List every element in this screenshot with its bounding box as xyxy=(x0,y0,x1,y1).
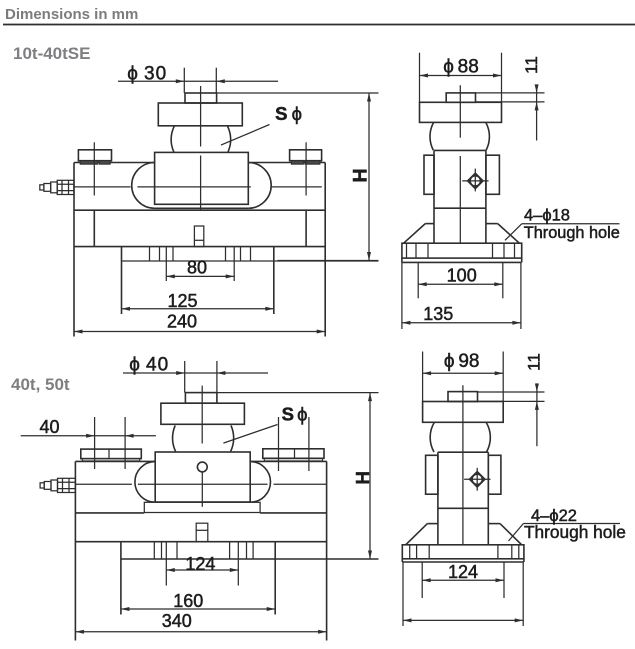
view C housing top edge right segment xyxy=(251,460,327,462)
svg-text:125: 125 xyxy=(167,291,197,311)
view C stadium right cap arc xyxy=(250,462,270,503)
view A top plate xyxy=(158,103,242,126)
view A housing top edge left segment xyxy=(74,162,154,164)
view D foot right slope xyxy=(500,524,522,545)
view B dim phi88 xyxy=(420,75,502,77)
view D body left side xyxy=(437,452,439,545)
view A left bolt centerline xyxy=(93,142,95,195)
view D left ear xyxy=(426,455,438,494)
view B dim 135 extension lines xyxy=(401,262,403,329)
view C dim phi40 extension ticks xyxy=(184,361,186,393)
view D hole cross horizontal xyxy=(464,478,490,480)
view B body joint line xyxy=(434,207,486,209)
view B hole cross horizontal xyxy=(462,180,488,182)
view A centerline vertical lower in block xyxy=(200,156,202,211)
view A centerline vertical upper xyxy=(200,86,202,147)
view D foot left shoulder xyxy=(427,523,438,525)
view D body top line xyxy=(438,451,488,453)
view A stud on top xyxy=(185,93,217,103)
view C housing top edge left segment xyxy=(75,460,154,462)
view C centerline vertical lower xyxy=(201,472,203,507)
view D body joint line xyxy=(438,507,488,509)
view A central block (white over stadium) xyxy=(155,152,249,204)
svg-text:H: H xyxy=(352,471,373,484)
view D body right side xyxy=(487,452,489,545)
view D centerline vertical xyxy=(462,385,464,544)
svg-text:ϕ 40: ϕ 40 xyxy=(129,354,169,375)
bottom H dimension line xyxy=(369,393,371,559)
svg-text:340: 340 xyxy=(162,611,192,631)
view B foot lip xyxy=(401,258,403,262)
view B hole circle xyxy=(470,176,480,186)
view D hole circle xyxy=(472,474,482,484)
top H extension line bottom xyxy=(278,260,379,262)
view C dim phi40 line with outside arrows xyxy=(123,372,268,374)
view D hole cross vertical xyxy=(476,468,478,491)
view A stadium load cell right cap arc xyxy=(248,163,271,209)
view D foot right shoulder xyxy=(488,523,500,525)
view A stadium bottom line xyxy=(155,207,249,209)
view A base strip bottom + H extension line xyxy=(122,260,379,262)
view C base strip ticks xyxy=(153,542,155,559)
view B dim 11 lower extension line xyxy=(476,101,545,103)
view A housing shelf line xyxy=(74,209,325,211)
view D dim 11 lower extension line xyxy=(478,400,545,402)
view C stadium left cap arc xyxy=(135,462,155,503)
view D leader line 4-phi22 xyxy=(509,524,524,542)
svg-text:Through hole: Through hole xyxy=(524,522,626,542)
view D dim 124 extension lines xyxy=(421,562,423,598)
svg-text:H: H xyxy=(349,168,371,182)
svg-text:4–ϕ18: 4–ϕ18 xyxy=(524,207,570,225)
view D foot band ticks xyxy=(409,545,411,559)
view A cable gland mid collar xyxy=(51,182,58,193)
view A cable gland small collar xyxy=(44,184,51,192)
svg-text:240: 240 xyxy=(167,312,197,332)
view D foot band xyxy=(402,545,524,559)
view B leader line 4-phi18 xyxy=(505,224,522,241)
view B leader horizontal line xyxy=(522,223,620,225)
view A left cap pads xyxy=(80,161,98,165)
svg-text:Through hole: Through hole xyxy=(524,224,620,242)
svg-text:40: 40 xyxy=(39,417,59,437)
view A housing left edge + 240 extension xyxy=(73,163,75,337)
view C S-phi leader line xyxy=(223,425,277,444)
view C dim 160 xyxy=(121,608,275,610)
view B stud xyxy=(446,93,475,102)
view B centerline vertical xyxy=(459,85,461,138)
view C left bolt centerlines xyxy=(94,417,96,469)
view C right end cap xyxy=(263,449,324,459)
view C dim 40 line with outside arrows xyxy=(21,435,156,437)
svg-text:10t-40tSE: 10t-40tSE xyxy=(13,44,90,63)
view B body left side xyxy=(433,150,435,243)
view C H extension line from stud top xyxy=(217,392,379,394)
view D top plate xyxy=(423,402,504,423)
view B foot left slope xyxy=(404,224,426,244)
view D dim 11 upper extension line xyxy=(478,391,545,393)
view A base strip right edge + 125 extension xyxy=(273,247,275,314)
view A right rib xyxy=(305,210,307,246)
view D leader horizontal line xyxy=(523,523,620,525)
view A bottom plug xyxy=(194,226,203,247)
view D dim 11 line and arrows xyxy=(536,383,538,446)
svg-text:ϕ 98: ϕ 98 xyxy=(444,351,480,372)
view C right cap pads xyxy=(264,459,322,461)
svg-text:11: 11 xyxy=(525,353,544,371)
view A dim 240 xyxy=(74,331,325,333)
view B dim 11 line and arrows xyxy=(536,85,538,141)
view A right bolt centerline xyxy=(305,142,307,195)
view B foot right shoulder xyxy=(486,223,498,225)
view A right cap pads xyxy=(291,161,303,165)
view C thin plate under block xyxy=(144,502,260,512)
view C right bolt centerlines xyxy=(278,417,280,471)
view B body top line xyxy=(434,149,486,151)
view B foot band xyxy=(402,243,522,258)
view C base strip right edge + 160 extension xyxy=(274,542,276,615)
view A S-phi leader line xyxy=(221,125,270,146)
view D right ear xyxy=(488,455,501,494)
header rule xyxy=(3,24,635,26)
view A left rib xyxy=(93,210,95,246)
view A cable gland tip xyxy=(40,185,44,190)
view A stadium load cell left cap arc xyxy=(132,163,155,209)
svg-text:S: S xyxy=(275,103,287,124)
view C stud xyxy=(185,393,217,404)
view B foot right slope xyxy=(498,224,520,244)
view C cable gland knurled nut xyxy=(58,478,76,492)
view D bottom dim extension lines xyxy=(402,562,404,626)
view B left ear xyxy=(424,155,434,194)
view A housing top edge right segment xyxy=(249,162,325,164)
svg-text:Dimensions in mm: Dimensions in mm xyxy=(5,6,138,23)
view D ball arcs xyxy=(430,422,434,452)
view C shelf line left xyxy=(75,512,144,514)
view C bottom plug xyxy=(196,523,208,542)
view D dim phi98 extension lines xyxy=(422,352,424,402)
view A dim 80 extension lines xyxy=(165,247,167,281)
view C base strip bottom + H extension line xyxy=(121,558,379,560)
view C block hole circle xyxy=(197,462,207,472)
view A dim phi30 line with outside arrows xyxy=(118,80,278,82)
view C ball arcs xyxy=(173,426,176,452)
view C top plate xyxy=(161,403,245,424)
view C centerline vertical upper xyxy=(201,386,203,444)
view D bottom dim line xyxy=(403,619,523,621)
view B dim 135 xyxy=(402,322,521,324)
view C dim 124 extension lines xyxy=(165,542,167,586)
view C housing left edge + 340 extension xyxy=(74,461,76,640)
view A dim 125 xyxy=(122,308,274,310)
view A housing right edge + 240 extension xyxy=(324,163,326,337)
view D dim 124 xyxy=(422,579,504,581)
view B body right side xyxy=(485,150,487,243)
view D foot left slope xyxy=(406,524,428,545)
view B dim phi88 extension lines xyxy=(419,53,421,103)
view A left end cap xyxy=(78,150,111,161)
view C horizontal centerline segments xyxy=(75,483,131,485)
view C left cap pads xyxy=(82,459,139,461)
view D foot lip xyxy=(401,559,403,562)
svg-text:S: S xyxy=(282,403,294,424)
view B dim 100 xyxy=(418,283,503,285)
view A dim 80 xyxy=(166,275,234,277)
view A base strip left edge + 125 extension xyxy=(121,247,123,314)
view C shelf line right xyxy=(260,512,327,514)
view C dim 340 xyxy=(75,631,326,633)
view B dim 100 extension lines xyxy=(417,262,419,298)
view A H extension line from stud top xyxy=(217,92,379,94)
svg-text:100: 100 xyxy=(447,266,477,286)
view C central block (white over stadium) xyxy=(155,452,250,502)
svg-text:80: 80 xyxy=(187,258,207,278)
view D hole diamond xyxy=(470,472,485,487)
svg-text:160: 160 xyxy=(173,591,203,611)
svg-text:ϕ 30: ϕ 30 xyxy=(127,63,167,84)
view C cable gland mid collar xyxy=(51,480,58,491)
svg-text:ϕ 88: ϕ 88 xyxy=(443,57,479,78)
view D dim phi98 xyxy=(423,372,504,374)
view B right ear xyxy=(486,155,500,194)
view B ball arcs xyxy=(430,122,434,150)
view B top plate xyxy=(420,102,502,122)
view B foot band ticks xyxy=(406,243,408,258)
view A housing bottom line xyxy=(74,246,325,248)
view A right end cap xyxy=(290,150,322,161)
svg-text:11: 11 xyxy=(522,56,541,74)
view C cable gland tip xyxy=(40,483,44,488)
view C cable gland small collar xyxy=(44,482,51,490)
svg-text:40t, 50t: 40t, 50t xyxy=(11,375,70,394)
view A rocker ball arcs xyxy=(171,126,174,152)
view B dim 11 upper extension line xyxy=(476,92,545,94)
view B foot left shoulder xyxy=(425,223,434,225)
view C base strip left edge + 160 extension xyxy=(120,542,122,615)
top H dimension line xyxy=(368,93,370,261)
view A dim phi30 extension ticks xyxy=(183,68,185,93)
view C left end cap xyxy=(81,449,142,459)
view A base strip ticks xyxy=(149,247,151,261)
svg-text:124: 124 xyxy=(448,562,478,582)
view A horizontal centerline segments xyxy=(74,186,131,188)
view D stud xyxy=(448,392,478,402)
view C housing right edge + 340 extension xyxy=(326,461,328,640)
svg-text:ϕ: ϕ xyxy=(292,103,302,124)
view B hole diamond xyxy=(468,173,483,188)
svg-text:124: 124 xyxy=(185,554,215,574)
view B hole cross vertical xyxy=(474,169,476,192)
svg-text:135: 135 xyxy=(423,304,453,324)
view C dim 124 xyxy=(166,569,238,571)
view A cable gland knurled nut xyxy=(57,180,74,194)
view C housing bottom line xyxy=(75,541,326,543)
svg-text:ϕ: ϕ xyxy=(297,403,307,424)
